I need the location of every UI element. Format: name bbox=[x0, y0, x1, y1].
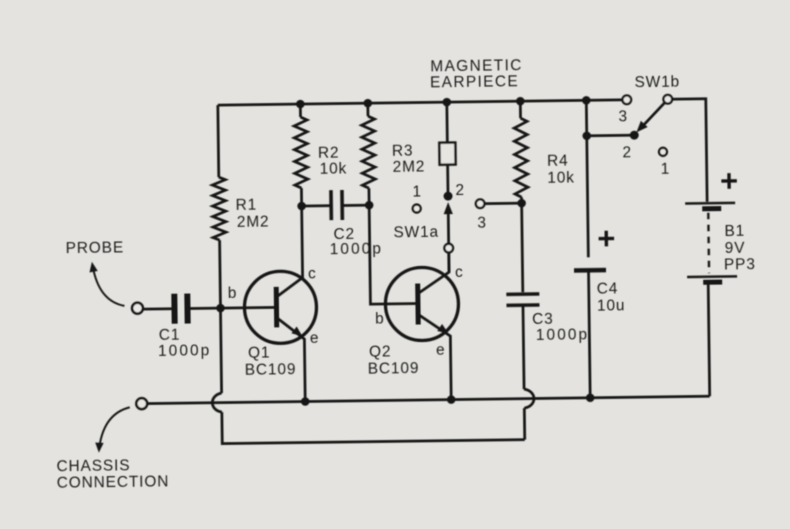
node: Q2 emitter / chassis rail bbox=[447, 395, 456, 404]
label: CHASSIS CONNECTION bbox=[56, 457, 169, 492]
node: C4 / chassis rail bbox=[586, 393, 595, 402]
probe curved pointer arrow bbox=[93, 266, 125, 306]
label: B1 9V PP3 bbox=[723, 223, 755, 274]
transistor Q2 circle bbox=[385, 267, 459, 341]
switch SW1b position 1 circle bbox=[659, 148, 667, 156]
chassis curved pointer arrow bbox=[99, 407, 130, 446]
node: probe / R1 / Q1 base junction bbox=[216, 304, 225, 313]
wire: below hop down to feedback rail corner bbox=[222, 408, 525, 443]
svg-text:2: 2 bbox=[622, 144, 632, 161]
switch SW1a wiper arm with arrowhead bbox=[447, 208, 450, 244]
label: Q2 pin c bbox=[455, 264, 464, 281]
svg-text:PROBE: PROBE bbox=[66, 239, 125, 257]
svg-text:10k: 10k bbox=[547, 169, 575, 186]
wire: C2 right plate to R3 bottom node bbox=[344, 204, 369, 207]
svg-text:BC109: BC109 bbox=[245, 361, 297, 379]
svg-text:2M2: 2M2 bbox=[237, 213, 270, 230]
transistor Q1 base bar bbox=[274, 287, 280, 327]
svg-text:1000p: 1000p bbox=[536, 326, 590, 344]
label: R1 2M2 bbox=[236, 196, 270, 230]
svg-text:10k: 10k bbox=[320, 160, 348, 177]
svg-text:3: 3 bbox=[477, 215, 487, 232]
wire: C1 to base junction and Q1 base bbox=[190, 307, 273, 308]
label: Q1 BC109 bbox=[244, 344, 296, 379]
label: C4 10u bbox=[597, 280, 626, 314]
transistor Q2 base bar bbox=[415, 284, 421, 325]
svg-text:B1: B1 bbox=[724, 223, 745, 240]
svg-text:1000p: 1000p bbox=[158, 342, 212, 360]
svg-text:R3: R3 bbox=[392, 143, 414, 160]
svg-text:e: e bbox=[436, 342, 446, 359]
svg-text:R2: R2 bbox=[318, 145, 340, 162]
transistor Q2 emitter lead bbox=[419, 315, 451, 400]
wire: hop (no-connect bridge) over chassis rail at right bbox=[524, 389, 534, 408]
label: SW1b bbox=[634, 74, 680, 92]
node: R3 / C2 / Q2 base junction bbox=[365, 201, 374, 210]
svg-text:CHASSIS: CHASSIS bbox=[56, 457, 130, 475]
label: Q1 pin e bbox=[310, 330, 320, 347]
transistor Q2 emitter arrowhead bbox=[437, 324, 448, 334]
capacitor C2 plates bbox=[331, 190, 342, 220]
switch SW1a common terminal circle bbox=[444, 244, 453, 253]
node: SW1b position 2 bbox=[630, 131, 639, 140]
capacitor C4 electrolytic plate bbox=[574, 268, 606, 273]
svg-text:SW1a: SW1a bbox=[393, 224, 439, 242]
svg-text:SW1b: SW1b bbox=[634, 74, 680, 92]
wire: probe terminal to C1 bbox=[143, 307, 171, 310]
node: top rail / R4 junction bbox=[516, 97, 525, 106]
svg-text:R1: R1 bbox=[236, 197, 258, 214]
wire: SW1b common to battery positive bbox=[672, 99, 707, 202]
transistor Q1 emitter arrowhead bbox=[291, 326, 302, 336]
wire: battery negative down to chassis rail bbox=[708, 285, 709, 396]
svg-text:2M2: 2M2 bbox=[393, 158, 426, 175]
wire: collector node to C2 left plate bbox=[302, 204, 330, 207]
svg-text:Q1: Q1 bbox=[248, 344, 271, 361]
resistor R1 bbox=[212, 177, 226, 240]
svg-text:R4: R4 bbox=[547, 153, 569, 170]
label: R2 10k bbox=[318, 144, 347, 177]
wire: R2 bottom to collector node bbox=[300, 188, 303, 206]
battery B1 cell 2 long plate bbox=[687, 275, 737, 278]
svg-text:b: b bbox=[375, 310, 385, 327]
resistor R3 bbox=[361, 116, 375, 188]
node: Q1 emitter / chassis rail bbox=[301, 397, 310, 406]
label: PROBE bbox=[66, 239, 125, 257]
label: SW1a position 3 bbox=[477, 215, 487, 232]
capacitor C4 polarity plus sign bbox=[599, 231, 615, 247]
wire: R1 bottom to probe junction bbox=[218, 240, 222, 308]
svg-text:e: e bbox=[310, 330, 320, 347]
svg-text:2: 2 bbox=[455, 182, 465, 199]
svg-text:Q2: Q2 bbox=[369, 343, 392, 360]
battery B1 polarity plus sign bbox=[721, 173, 737, 189]
node: SW1a position 2 bbox=[443, 192, 452, 201]
wire: R4 bottom node to C3 top bbox=[522, 197, 523, 292]
svg-text:1: 1 bbox=[661, 161, 671, 178]
switch SW1b wiper arm bbox=[642, 102, 666, 126]
switch SW1b common terminal circle bbox=[663, 95, 672, 104]
capacitor C3 plates bbox=[506, 294, 539, 305]
svg-text:C3: C3 bbox=[532, 311, 554, 328]
svg-text:C4: C4 bbox=[597, 280, 619, 297]
label: C1 1000p bbox=[158, 326, 212, 360]
transistor Q1 emitter lead bbox=[278, 318, 306, 402]
transistor Q1 collector lead bbox=[276, 206, 303, 296]
label: C2 1000p bbox=[329, 225, 383, 258]
wire: probe junction down to hop over chassis rail bbox=[220, 308, 221, 393]
label: Q1 pin c bbox=[308, 265, 317, 282]
battery B1 cell 1 long plate bbox=[685, 202, 735, 205]
label: Q2 BC109 bbox=[367, 343, 419, 378]
probe input terminal circle bbox=[132, 303, 143, 314]
svg-text:C1: C1 bbox=[159, 327, 181, 344]
wire: SW1a common down to Q2 collector bbox=[447, 253, 450, 272]
label: R4 10k bbox=[547, 152, 575, 186]
node: R4 bottom / C3 junction bbox=[517, 199, 526, 208]
resistor R2 bbox=[294, 117, 308, 188]
label: SW1b position 2 bbox=[622, 144, 632, 161]
wire: rail to R2 top bbox=[299, 104, 302, 117]
node: top rail / C4 junction bbox=[582, 96, 591, 105]
node: top rail / R3 junction bbox=[363, 99, 372, 108]
switch SW1b wiper arrowhead bbox=[636, 121, 647, 133]
label: Q1 pin b bbox=[228, 285, 238, 302]
svg-text:1: 1 bbox=[412, 183, 422, 200]
transistor Q1 circle bbox=[244, 271, 317, 344]
label: SW1a position 2 bbox=[455, 182, 465, 199]
battery B1 dashed link between cells bbox=[707, 213, 710, 273]
wire: rail to R4 top bbox=[519, 101, 522, 118]
svg-text:3: 3 bbox=[618, 108, 628, 125]
label: MAGNETIC EARPIECE bbox=[430, 57, 523, 91]
wire: rail to R3 top bbox=[366, 103, 369, 116]
resistor R4 bbox=[514, 118, 528, 197]
label: SW1b position 1 bbox=[661, 161, 671, 178]
label: SW1a position 1 bbox=[412, 183, 422, 200]
wire: C3 bottom down to hop over chassis rail bbox=[523, 305, 524, 389]
svg-text:c: c bbox=[308, 265, 317, 282]
wire: rail down to C4 bbox=[586, 100, 588, 257]
node: top rail / R2 junction bbox=[296, 100, 305, 109]
node: R2 / C2 / Q1 collector junction bbox=[297, 202, 306, 211]
svg-text:EARPIECE: EARPIECE bbox=[430, 73, 519, 91]
chassis terminal circle bbox=[136, 398, 147, 409]
svg-text:CONNECTION: CONNECTION bbox=[57, 473, 170, 491]
node: top rail / earpiece junction bbox=[442, 98, 451, 107]
node: C4 branch / SW1b link junction bbox=[582, 131, 591, 140]
wire: rail down to earpiece bbox=[445, 102, 448, 142]
switch SW1a position 1 circle bbox=[413, 204, 421, 212]
wire: R3 bottom node down and over to Q2 base bbox=[369, 188, 416, 305]
wire: SW1b position 2 link to C4 branch bbox=[587, 134, 634, 137]
svg-text:BC109: BC109 bbox=[368, 360, 420, 378]
battery B1 cell 2 short thick plate bbox=[703, 280, 722, 285]
label: SW1a bbox=[393, 224, 439, 242]
wire: C4 bottom to chassis rail bbox=[589, 272, 591, 397]
svg-text:10u: 10u bbox=[597, 297, 626, 314]
wire: left vertical drop to R1 bbox=[216, 105, 220, 177]
label: R3 2M2 bbox=[392, 142, 426, 175]
wire: earpiece to SW1a pole 2 node bbox=[446, 165, 449, 196]
label: Q2 pin e bbox=[436, 342, 446, 359]
svg-text:PP3: PP3 bbox=[724, 256, 756, 273]
wire: top supply rail bbox=[218, 100, 622, 105]
capacitor C1 plates bbox=[174, 294, 187, 324]
svg-text:c: c bbox=[455, 264, 464, 281]
battery B1 cell 1 short thick plate bbox=[702, 206, 721, 211]
label: SW1b position 3 bbox=[618, 108, 628, 125]
svg-text:b: b bbox=[228, 285, 238, 302]
switch SW1b position 3 circle (end of top rail) bbox=[622, 95, 631, 104]
wire: below hop to feedback rail corner bbox=[523, 408, 526, 439]
wire: chassis rail bbox=[147, 396, 709, 403]
magnetic earpiece (rectangle symbol) bbox=[439, 143, 455, 165]
label: C3 1000p bbox=[532, 310, 589, 344]
switch SW1a position 3 circle bbox=[476, 199, 485, 208]
wire: SW1a position 3 to R4 bottom node bbox=[485, 202, 522, 205]
transistor Q2 collector lead bbox=[418, 253, 449, 293]
svg-text:1000p: 1000p bbox=[330, 240, 384, 258]
wire: hop (no-connect bridge) over chassis rail at left bbox=[212, 393, 222, 412]
label: Q2 pin b bbox=[375, 310, 385, 327]
svg-text:9V: 9V bbox=[725, 240, 746, 257]
